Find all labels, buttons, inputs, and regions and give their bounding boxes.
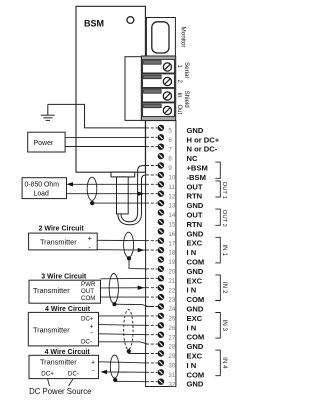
bracket terminals 17-19 (IN 1) — [215, 237, 220, 263]
svg-text:IN 2: IN 2 — [221, 282, 228, 294]
terminal cell 3 — [143, 88, 175, 102]
shield junction dot (3-wire) — [112, 302, 116, 306]
module side protrusion behind serial block — [125, 57, 141, 121]
terminal 18 contact — [146, 249, 158, 251]
DC power source leader lines — [48, 379, 50, 386]
shield wire to terminal 32 GND — [115, 380, 146, 382]
svg-text:14: 14 — [168, 212, 175, 219]
twisted pair oval (load circuit) — [87, 177, 97, 200]
terminal 21 contact — [146, 277, 158, 279]
wire PWR to terminal 21 EXC — [101, 277, 147, 279]
svg-text:I N: I N — [187, 361, 197, 370]
twisted pair oval (4-wire 1, dashed) — [124, 310, 133, 350]
svg-text:30: 30 — [168, 363, 175, 370]
wire terminal 31 COM to box with arrow — [106, 371, 146, 373]
svg-text:29: 29 — [168, 353, 175, 360]
svg-text:OUT: OUT — [81, 288, 94, 295]
screw 3 — [163, 92, 171, 100]
shield junction dot (4-wire 2) — [113, 378, 117, 382]
ground symbol — [41, 104, 55, 120]
svg-text:5: 5 — [168, 128, 172, 135]
terminal 31 contact — [146, 371, 158, 373]
bracket terminals 11-12 (OUT 1) — [215, 181, 220, 197]
wire DC+ to terminal 25 EXC — [99, 315, 147, 317]
terminal 10 contact — [146, 174, 158, 176]
terminal strip body 5-32 — [146, 121, 176, 387]
terminal 29 contact — [146, 353, 158, 355]
shield junction dot (load) — [90, 201, 94, 205]
svg-text:+: + — [88, 233, 92, 242]
svg-text:15: 15 — [168, 222, 175, 229]
svg-text:28: 28 — [168, 344, 175, 351]
bracket terminals 14-15 (OUT 2) — [215, 209, 220, 225]
svg-text:DC+: DC+ — [81, 315, 94, 322]
terminal 16 contact — [158, 228, 164, 234]
wire to terminal 18 IN with arrow — [97, 249, 146, 251]
terminal 30 contact — [146, 362, 158, 364]
svg-text:EXC: EXC — [187, 352, 203, 361]
BSM module outline box — [76, 6, 145, 172]
svg-text:2 Wire Circuit: 2 Wire Circuit — [39, 225, 85, 232]
terminal 12 contact — [146, 193, 158, 195]
monitor connector block — [146, 18, 175, 57]
svg-text:IN 3: IN 3 — [221, 320, 228, 332]
terminal cell 2 — [143, 74, 175, 88]
screw 4 — [163, 106, 171, 114]
svg-text:EXC: EXC — [187, 314, 203, 323]
svg-text:22: 22 — [168, 287, 175, 294]
shield wire to terminal 29 EXC — [129, 351, 146, 353]
4-wire transmitter box 2 — [29, 355, 99, 378]
terminal 7 contact — [146, 146, 158, 148]
twisted pair oval (2-wire) — [124, 232, 134, 257]
svg-text:23: 23 — [168, 297, 175, 304]
svg-text:COM: COM — [81, 295, 95, 302]
terminal 13 contact — [146, 202, 158, 204]
svg-text:I N: I N — [187, 323, 197, 332]
svg-text:COM: COM — [187, 295, 205, 304]
svg-text:Out: Out — [176, 105, 182, 115]
svg-text:3 Wire Circuit: 3 Wire Circuit — [41, 273, 87, 280]
screw 2 — [163, 77, 171, 85]
svg-text:I N: I N — [187, 248, 197, 257]
svg-text:2: 2 — [176, 80, 182, 84]
svg-text:EXC: EXC — [187, 276, 203, 285]
svg-text:12: 12 — [168, 193, 175, 200]
svg-text:COM: COM — [187, 258, 205, 267]
svg-text:Serial: Serial — [183, 62, 190, 78]
svg-text:BSM: BSM — [84, 19, 104, 29]
svg-text:OUT: OUT — [187, 182, 203, 191]
svg-text:20: 20 — [168, 269, 175, 276]
loop wire to terminal 10 (-BSM) — [118, 175, 146, 225]
svg-text:COM: COM — [187, 370, 205, 379]
svg-text:OUT: OUT — [187, 211, 203, 220]
svg-text:EXC: EXC — [187, 239, 203, 248]
svg-text:IN 4: IN 4 — [221, 357, 228, 369]
svg-text:H or DC+: H or DC+ — [187, 135, 220, 144]
svg-text:21: 21 — [168, 278, 175, 285]
bracket terminals 29-31 (IN 4) — [215, 350, 220, 376]
svg-text:GND: GND — [187, 229, 204, 238]
svg-text:7: 7 — [168, 146, 172, 153]
wire terminal 11 OUT to load with arrow — [70, 183, 146, 185]
svg-text:DC Power Source: DC Power Source — [29, 387, 91, 396]
svg-text:IN 1: IN 1 — [221, 244, 228, 256]
svg-text:Power: Power — [34, 140, 55, 147]
svg-text:DC-: DC- — [68, 371, 79, 378]
shield wire to terminal 13 GND — [92, 202, 146, 204]
svg-text:27: 27 — [168, 334, 175, 341]
indicator circle on BSM — [127, 17, 134, 24]
svg-text:13: 13 — [168, 203, 175, 210]
Power box — [28, 132, 65, 152]
svg-text:Monitor: Monitor — [180, 27, 187, 48]
svg-text:Transmitter: Transmitter — [40, 358, 77, 367]
terminal cell 1 — [143, 59, 175, 73]
svg-text:DC-: DC- — [81, 339, 92, 346]
terminal 22 contact — [146, 287, 158, 289]
svg-text:GND: GND — [187, 267, 204, 276]
shield wire to terminal 20 GND — [129, 258, 146, 268]
svg-text:18: 18 — [168, 250, 175, 257]
svg-text:17: 17 — [168, 240, 175, 247]
2-wire transmitter box — [29, 233, 98, 250]
svg-text:31: 31 — [168, 372, 175, 379]
svg-text:+BSM: +BSM — [187, 164, 208, 173]
4-wire transmitter box 1 — [28, 312, 98, 346]
terminal 25 contact — [146, 315, 158, 317]
svg-text:32: 32 — [168, 381, 175, 388]
3-wire transmitter box — [29, 280, 101, 303]
svg-text:6: 6 — [168, 137, 172, 144]
terminal 23 contact — [146, 296, 158, 298]
terminal 11 contact — [146, 183, 158, 185]
wire ground to terminal 5 — [48, 104, 146, 128]
svg-text:N or DC-: N or DC- — [187, 145, 218, 154]
svg-text:19: 19 — [168, 259, 175, 266]
terminal cell 4 — [143, 103, 175, 117]
module bottom tab — [111, 172, 135, 177]
terminal 15 contact — [158, 219, 164, 225]
terminal 20 contact — [146, 268, 158, 270]
terminal 19 contact — [158, 256, 164, 262]
svg-text:Transmitter: Transmitter — [33, 286, 70, 295]
terminal 27 contact — [146, 334, 158, 336]
shield wire to terminal 24 GND — [115, 304, 155, 306]
twisted pair oval (4-wire 2) — [110, 355, 119, 378]
terminal 14 contact — [158, 209, 164, 215]
svg-text:0-850 Ohm: 0-850 Ohm — [25, 182, 60, 189]
svg-text:GND: GND — [187, 305, 204, 314]
svg-text:GND: GND — [187, 380, 204, 389]
serial/shield terminal block — [141, 56, 175, 121]
svg-text:Shield: Shield — [183, 91, 190, 109]
svg-text:DC+: DC+ — [41, 371, 54, 378]
bracket terminals 9-10 — [215, 162, 220, 178]
terminal 17 contact — [146, 240, 158, 242]
svg-text:GND: GND — [187, 342, 204, 351]
terminal 5 contact — [146, 127, 158, 129]
wire power to terminal 6 — [65, 136, 146, 138]
wire + to terminal 30 IN — [99, 362, 147, 363]
wire OUT to terminal 22 IN with arrow — [101, 287, 147, 289]
wire + to terminal 26 IN — [99, 324, 147, 327]
0-850 Ohm Load box — [22, 178, 66, 199]
svg-text:PWR: PWR — [81, 281, 96, 288]
svg-text:OUT 2: OUT 2 — [221, 210, 227, 227]
wire power to terminal 7 — [65, 146, 146, 148]
screw 1 — [163, 63, 171, 71]
terminal 24 contact — [146, 306, 158, 308]
svg-text:RTN: RTN — [187, 220, 203, 229]
wire COM to terminal 23 COM — [101, 296, 147, 298]
terminal 28 contact — [146, 343, 158, 345]
wire to terminal 17 EXC — [97, 239, 146, 241]
svg-text:8: 8 — [168, 156, 172, 163]
terminal 26 contact — [146, 324, 158, 326]
shield junction dot (4-wire 1) — [127, 349, 131, 353]
svg-text:I N: I N — [187, 286, 197, 295]
svg-text:9: 9 — [168, 165, 172, 172]
svg-text:10: 10 — [168, 175, 175, 182]
svg-text:In: In — [176, 93, 182, 98]
terminal 8 contact — [158, 153, 164, 159]
svg-text:1: 1 — [176, 65, 182, 69]
svg-text:24: 24 — [168, 306, 175, 313]
wire DC- to terminal 28 GND — [99, 342, 148, 344]
svg-text:Transmitter: Transmitter — [40, 238, 77, 247]
terminal 32 contact — [146, 381, 158, 383]
terminal 6 contact — [146, 136, 158, 138]
loop wire to terminal 9 (+BSM) — [121, 166, 146, 222]
svg-text:RTN: RTN — [187, 192, 203, 201]
svg-text:Load: Load — [34, 191, 49, 198]
svg-text:-BSM: -BSM — [187, 173, 206, 182]
twisted pair oval (3-wire) — [109, 274, 118, 304]
svg-text:GND: GND — [187, 201, 204, 210]
svg-text:+: + — [91, 360, 95, 367]
wire load to terminal 12 RTN with arrow — [67, 193, 147, 195]
bracket terminals 25-27 (IN 3) — [215, 313, 220, 339]
svg-text:NC: NC — [187, 154, 198, 163]
wire - to terminal 27 COM — [99, 333, 147, 336]
svg-text:OUT 1: OUT 1 — [221, 182, 227, 199]
bracket terminals 21-23 (IN 2) — [215, 275, 220, 301]
svg-text:Transmitter: Transmitter — [33, 325, 70, 334]
shield junction dot (2-wire) — [127, 256, 131, 260]
svg-text:GND: GND — [187, 126, 204, 135]
svg-text:25: 25 — [168, 316, 175, 323]
svg-text:16: 16 — [168, 231, 175, 238]
terminal 9 contact — [146, 165, 158, 167]
svg-text:11: 11 — [168, 184, 175, 191]
svg-text:26: 26 — [168, 325, 175, 332]
svg-text:COM: COM — [187, 333, 205, 342]
